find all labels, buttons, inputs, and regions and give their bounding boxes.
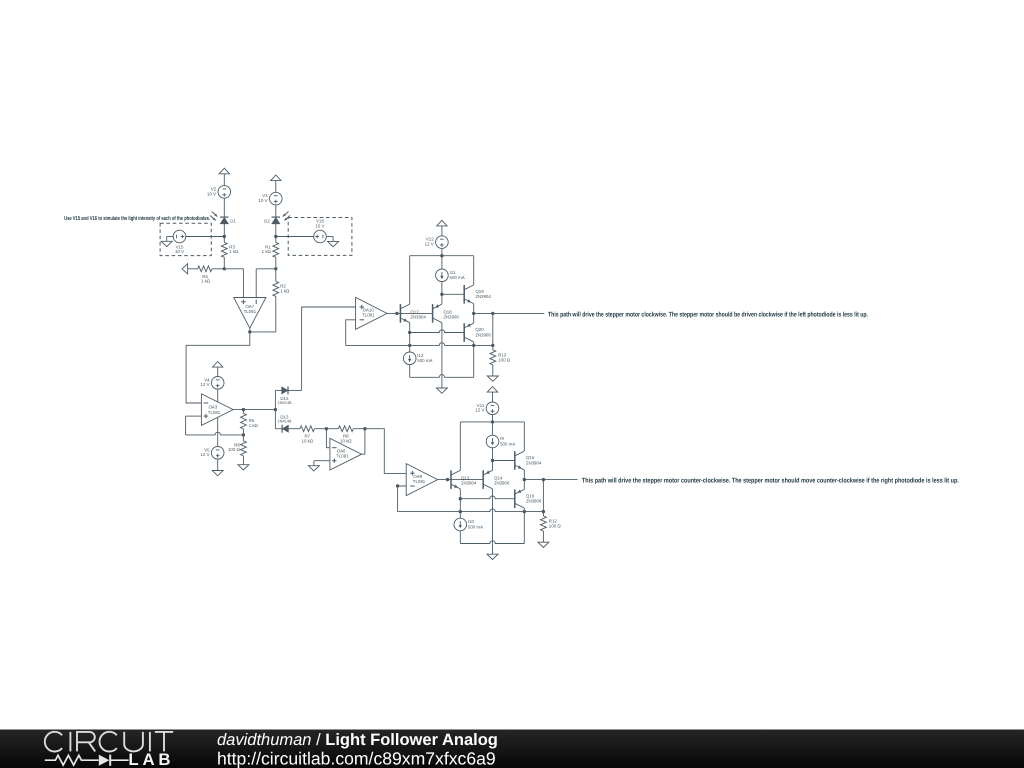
op-amp OA7 TL081 [234, 298, 266, 329]
current source I11 500mA [436, 269, 465, 282]
power flag VCC (V12) [437, 220, 447, 236]
svg-text:2N3906: 2N3906 [475, 332, 491, 337]
svg-text:500 mA: 500 mA [500, 441, 515, 446]
ground (OA6 +) [308, 466, 319, 471]
ground (R13) [487, 376, 498, 381]
wire D1 to node [223, 224, 225, 237]
wire D2 to node [275, 224, 277, 237]
resistor R13 [490, 345, 511, 376]
wire OA7 - input [256, 269, 276, 298]
svg-text:TL081: TL081 [244, 309, 257, 314]
wire Q14 emitter up [492, 461, 494, 471]
node Q13 base [446, 478, 449, 481]
wire rail to Q19 collector [473, 256, 475, 285]
ground (R6) [238, 465, 249, 470]
wire node to R1 [275, 237, 277, 243]
ground (V16) [328, 241, 339, 246]
current source I12 500mA [403, 333, 432, 365]
svg-text:100 Ω: 100 Ω [498, 357, 511, 362]
node V11/rail [491, 420, 494, 423]
feedback row (OA8 -) [398, 509, 544, 512]
node output (Q19e/Q20e) [472, 312, 475, 315]
wire I10 to bottom rail [459, 531, 461, 543]
svg-text:10 V: 10 V [175, 249, 184, 254]
op-amp OA10 TL081 [356, 297, 387, 329]
svg-text:2N3904: 2N3904 [461, 481, 477, 486]
wire Q18 collector to ground [441, 323, 443, 388]
svg-text:500 mA: 500 mA [417, 358, 432, 363]
voltage source V16 [314, 219, 327, 243]
wire OA6 - input [326, 429, 330, 448]
wire R4 to node [212, 268, 224, 270]
wire OA10 out to bases [387, 312, 433, 314]
wire R8 node to OA8 + [365, 429, 406, 474]
wire Q13 emitter down [459, 489, 461, 499]
node output/R12 branch [542, 478, 545, 481]
node feedback/Q17e/I12 [408, 344, 411, 347]
transistor Q18 2N3906 [433, 304, 460, 323]
svg-text:D1: D1 [230, 219, 236, 224]
wire D13 to R7 [289, 428, 300, 430]
wire Q16 collector down [523, 508, 525, 544]
node I9/Q14e/Q15b [491, 459, 494, 462]
wire OA6 + to ground [314, 461, 330, 466]
svg-text:10 V: 10 V [207, 191, 216, 196]
svg-text:http://circuitlab.com/c89xm7xf: http://circuitlab.com/c89xm7xfxc6a9 [217, 748, 496, 768]
node Q17 base [395, 312, 398, 315]
resistor R1 [262, 242, 279, 257]
node OA3 out/diodes [274, 408, 277, 411]
svg-text:1N4148: 1N4148 [277, 400, 292, 405]
wire Q20 collector down [473, 342, 475, 378]
wire rail to I9 [492, 422, 494, 435]
wire I12 to bottom rail [409, 365, 411, 377]
node Q13e/Q16 base wire [459, 497, 462, 500]
resistor R5 [241, 410, 259, 435]
node D1/V15/R3 [223, 235, 226, 238]
resistor R12 [541, 512, 562, 543]
footer title [217, 731, 498, 749]
voltage source V15 [173, 230, 186, 254]
wire node to Q15 base [493, 460, 515, 462]
footer bar [0, 730, 1024, 768]
wire node to Q19 base [442, 293, 464, 295]
node feedback/Q20c [472, 344, 475, 347]
node output lower [523, 478, 526, 481]
wire R1 to node [275, 257, 277, 269]
wire OA7 + input [224, 269, 243, 298]
wire output down to R12 row [542, 480, 544, 512]
diode D15 1N4148 [277, 386, 292, 405]
svg-text:D2: D2 [264, 219, 270, 224]
svg-text:davidthuman / Light Follower A: davidthuman / Light Follower Analog [217, 731, 498, 749]
wire OA7 output down-left to OA3 [186, 328, 250, 403]
wire R3 to node [223, 257, 225, 269]
wire Q17 emitter down [409, 323, 411, 333]
power flag VCC (V2 branch) [219, 168, 229, 185]
footer url [217, 748, 496, 768]
power flag VCC (V3 branch) [271, 175, 281, 192]
svg-text:100 Ω: 100 Ω [228, 447, 241, 452]
dashed box around V15 [160, 223, 211, 255]
svg-text:2N3904: 2N3904 [475, 294, 491, 299]
svg-text:2N3904: 2N3904 [410, 315, 426, 320]
op-amp OA6 TL081 [330, 438, 362, 470]
wire OA8 out to bases [438, 479, 484, 481]
svg-text:10 kΩ: 10 kΩ [302, 438, 314, 443]
node feedback/Q13e/I10 [459, 510, 462, 513]
svg-text:2N3906: 2N3906 [443, 315, 459, 320]
node Q17e/Q20 base wire [408, 331, 411, 334]
wire V5 to ground [217, 459, 219, 470]
wire to D15 [275, 390, 281, 409]
transistor Q17 2N3904 [400, 304, 426, 323]
transistor Q19 2N3904 [464, 285, 491, 304]
wire output down to R13 row [492, 313, 494, 345]
node R7/R8/OA6- [325, 427, 328, 430]
svg-text:1 kΩ: 1 kΩ [229, 249, 239, 254]
wire V4 to OA3 V+ [217, 389, 219, 402]
svg-text:LAB: LAB [128, 750, 174, 768]
wire rail to Q15 collector [523, 422, 525, 451]
top rail [410, 255, 474, 257]
wire to D13 [275, 410, 282, 429]
node R8/OA6 out [363, 427, 366, 430]
resistor R6 [228, 435, 246, 465]
output wire (clockwise path) [474, 312, 545, 314]
annotation photodiode note [64, 215, 210, 222]
power flag VCC (V11) [487, 387, 497, 403]
node R5/R6/feedback [242, 433, 245, 436]
feedback row (OA10 -) [346, 343, 493, 346]
wire OA3 + feedback [186, 416, 244, 435]
svg-text:100 Ω: 100 Ω [549, 524, 562, 529]
wire V15 to ground [167, 237, 174, 242]
svg-text:TL081: TL081 [413, 479, 426, 484]
voltage source V3 [259, 192, 283, 205]
node OA3 out/R5 [242, 408, 245, 411]
node OA8 - corner [396, 484, 399, 487]
svg-text:OA3: OA3 [209, 404, 218, 409]
ground (R12) [538, 542, 549, 547]
node feedback/R12 [542, 510, 545, 513]
svg-text:1N4148: 1N4148 [277, 418, 292, 423]
wire R7 to node [314, 428, 326, 430]
wire V15 to D1 node [186, 236, 225, 238]
port arrow (R4 left) [182, 264, 198, 274]
photodiode D1 [210, 212, 236, 224]
svg-text:This path will drive the stepp: This path will drive the stepper motor c… [582, 478, 959, 485]
svg-text:500 mA: 500 mA [468, 524, 483, 529]
wire OA8 - loop [398, 486, 407, 512]
power flag VCC (V4) [213, 362, 223, 377]
bottom rail (lower block) [460, 541, 524, 544]
svg-text:1 kΩ: 1 kΩ [249, 423, 259, 428]
resistor R8 [338, 426, 353, 444]
voltage source V4 [201, 377, 224, 390]
wire V2 to D1 [223, 198, 225, 217]
ground (V15) [161, 241, 172, 246]
bottom rail [410, 375, 474, 378]
wire V3 to D2 [275, 205, 277, 217]
svg-text:10 V: 10 V [315, 223, 324, 228]
diode D13 1N4148 [277, 414, 292, 432]
svg-text:TL081: TL081 [208, 410, 221, 415]
wire R8 to node [353, 428, 365, 430]
dashed box around V16 [288, 218, 352, 256]
wire Q16 emitter to out [523, 480, 525, 490]
CircuitLab logo resistor and diode [45, 755, 129, 766]
svg-text:12 V: 12 V [201, 452, 210, 457]
wire OA3 output [233, 409, 275, 411]
svg-text:2N3906: 2N3906 [526, 499, 542, 504]
annotation clockwise path [548, 312, 868, 319]
svg-text:10 V: 10 V [259, 198, 268, 203]
wire D15 to OA10 + [288, 307, 355, 390]
transistor Q14 2N3906 [483, 470, 510, 489]
svg-text:1 kΩ: 1 kΩ [201, 279, 211, 284]
transistor Q15 2N3904 [515, 451, 542, 470]
voltage source V12 [425, 236, 449, 249]
voltage source V2 [207, 186, 231, 199]
photodiode D2 [264, 212, 290, 224]
transistor Q20 2N3906 [464, 323, 491, 342]
transistor Q16 2N3906 [515, 489, 542, 508]
voltage source V5 [201, 447, 224, 460]
wire rail to I11 [441, 256, 443, 269]
wire rail to Q13 collector [459, 422, 461, 470]
CircuitLab logo CIRCUIT [45, 732, 173, 752]
node R1/R2/OA7- [274, 267, 277, 270]
transistor Q13 2N3904 [451, 470, 477, 489]
svg-text:12 V: 12 V [425, 242, 434, 247]
voltage source V11 [475, 402, 499, 415]
svg-text:2N3904: 2N3904 [526, 460, 542, 465]
wire to R8 [326, 428, 338, 430]
ground (V5) [212, 471, 223, 476]
svg-text:1 kΩ: 1 kΩ [280, 288, 290, 293]
node feedback/R13 [491, 344, 494, 347]
resistor R7 [300, 426, 314, 444]
wire Q17e to Q20 base [410, 330, 465, 333]
node R3/R4/OA7+ [223, 267, 226, 270]
op-amp OA8 TL081 [406, 464, 437, 496]
wire OA6 output to R8 node [362, 429, 365, 455]
svg-text:TL081: TL081 [362, 313, 375, 318]
wire I11 to node [441, 282, 443, 294]
wire Q15 emitter to out [523, 470, 525, 480]
ground (Q18 collector) [436, 388, 447, 393]
wire V12 to rail [441, 248, 443, 255]
svg-text:Use V15 and V16 to simulate th: Use V15 and V16 to simulate the light in… [64, 215, 210, 222]
annotation counter-clockwise path [582, 478, 959, 485]
wire V11 to rail [492, 415, 494, 422]
current source I9 500mA [486, 435, 515, 448]
node feedback/Q16c [523, 510, 526, 513]
node output/R13 branch [491, 312, 494, 315]
svg-text:This path will drive the stepp: This path will drive the stepper motor c… [548, 312, 868, 319]
wire OA10 - loop [346, 320, 356, 346]
svg-text:1 kΩ: 1 kΩ [262, 249, 272, 254]
node D2/V16/R1 [274, 235, 277, 238]
svg-text:12 V: 12 V [475, 408, 484, 413]
op-amp OA3 TL081 [201, 394, 233, 426]
resistor R2 [273, 269, 290, 297]
wire Q18 emitter up [441, 294, 443, 304]
wire R2 to OA7 output [250, 296, 276, 332]
svg-text:10 kΩ: 10 kΩ [340, 438, 352, 443]
resistor R4 [198, 266, 212, 284]
svg-text:500 mA: 500 mA [450, 275, 465, 280]
wire Q13e to Q16 base [460, 496, 515, 499]
node I11/Q18e/Q19b [440, 293, 443, 296]
output wire (counter-clockwise path) [524, 479, 577, 481]
top rail (lower block) [460, 421, 524, 423]
wire I9 to node [492, 448, 494, 460]
resistor R3 [221, 242, 239, 257]
wire OA3 V- to V5 [217, 418, 219, 447]
wire node to R3 [223, 237, 225, 243]
wire Q14 collector to ground [492, 489, 494, 554]
svg-text:2N3906: 2N3906 [494, 481, 510, 486]
node OA7 out/R2 [248, 330, 251, 333]
CircuitLab logo LAB [128, 750, 174, 768]
svg-text:12 V: 12 V [201, 382, 210, 387]
current source I10 500mA [454, 499, 483, 531]
wire V16 to ground [326, 237, 333, 242]
wire V16 to D2 node [276, 236, 314, 238]
wire Q19 emitter to out [473, 304, 475, 314]
wire Q20 emitter to out [473, 313, 475, 323]
svg-text:TL081: TL081 [336, 453, 349, 458]
node V12/rail [440, 254, 443, 257]
ground (Q14 collector) [487, 554, 498, 559]
wire rail to Q17 collector [409, 256, 411, 304]
